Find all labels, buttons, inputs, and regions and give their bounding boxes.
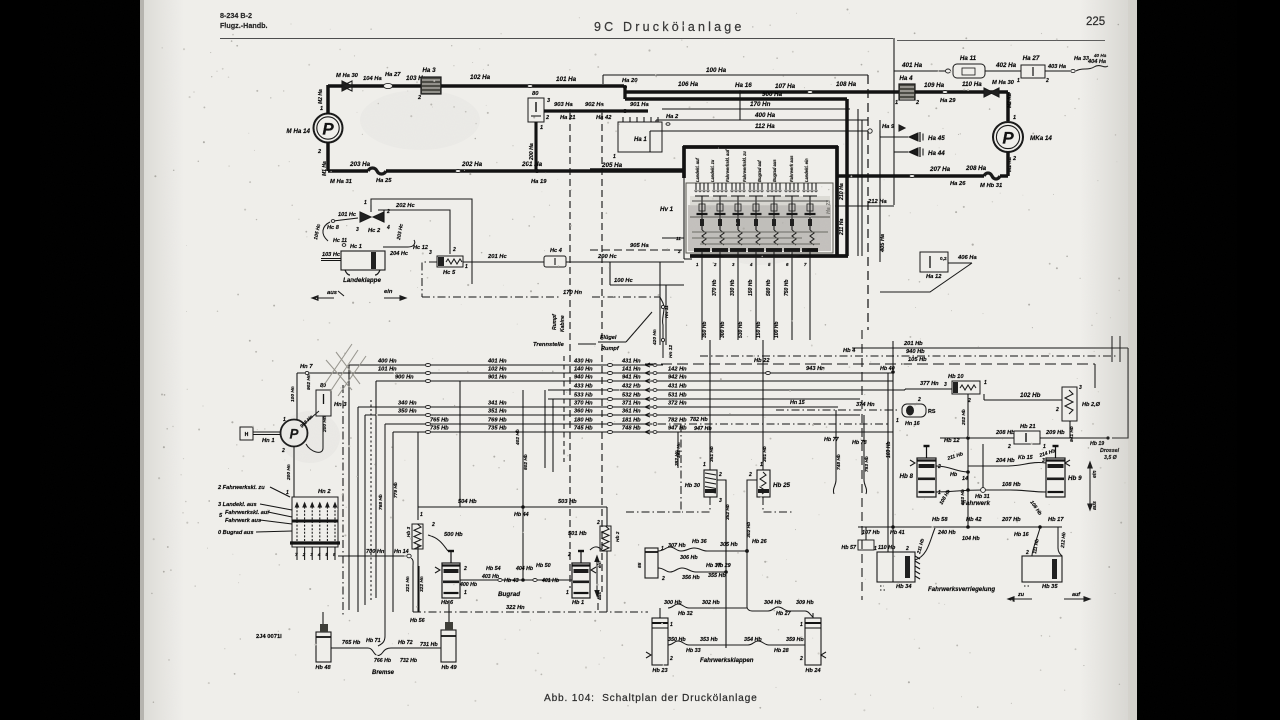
valve Hb 21 — [1014, 431, 1040, 444]
left riser bugrad — [417, 432, 419, 520]
wires below valve block — [701, 262, 703, 340]
wires below Hn 2 — [296, 547, 298, 560]
wire 201 Hc — [463, 261, 544, 263]
bleed valve Ha 45 — [880, 136, 908, 138]
wire 304-309 Hb — [752, 607, 813, 617]
wire 105 Hb dashed — [645, 363, 1095, 365]
wire band y424 — [385, 423, 652, 425]
wire band y424 dash-dot continuation — [658, 423, 890, 425]
scan smudges — [280, 411, 340, 463]
wire pump down — [293, 446, 295, 497]
wires into locks — [915, 528, 935, 560]
riser x726 klappen — [725, 480, 727, 648]
risers from band to bugrad right — [597, 592, 599, 612]
check valve M Ha 30 right — [984, 88, 993, 97]
wire pump MKa14 to return bus — [1006, 152, 1010, 176]
wire 208 Hb — [940, 437, 1014, 439]
paper grain — [140, 0, 1137, 720]
wire band y399 — [548, 398, 860, 400]
wire 170 Hn dash-dot — [422, 262, 437, 297]
wire 940 Hb dash-dot — [700, 355, 1118, 357]
wire right riser 900 Ha — [845, 99, 849, 256]
handpump box H — [240, 427, 253, 440]
valve block Hv 1 body — [688, 205, 831, 251]
wire 202 Hc outer — [371, 199, 472, 284]
wire 170 Hn upper — [662, 108, 850, 110]
valve Hc 2 — [360, 212, 371, 222]
wire 352 Hb — [717, 480, 726, 648]
wire 307-305 Hb — [658, 547, 747, 551]
wire 170 Hn to junction — [660, 297, 664, 358]
riser x523 — [522, 390, 524, 507]
valve 80 upper — [528, 98, 544, 122]
wire 212 Ha — [837, 205, 894, 207]
risers 768/779 Hb to brakes — [378, 424, 385, 646]
dash line trennstelle x564 — [563, 356, 565, 462]
risers to block bottom — [659, 262, 661, 345]
selector block Hn 2 — [292, 497, 338, 547]
cylinder small left — [645, 548, 658, 578]
wire 900 Ha — [625, 97, 847, 101]
wire 200 Hc — [566, 261, 684, 263]
accumulator Hb 25 — [762, 340, 764, 470]
pump MKa 14 — [993, 122, 1023, 152]
throttle Hb 2 bugrad — [600, 526, 611, 551]
throttle Hb 2 — [1062, 387, 1077, 421]
coupling Ha 27 — [384, 83, 393, 88]
wire 109 Ha — [915, 90, 1008, 94]
wire 401 Ha — [894, 70, 950, 72]
throttle valve RS Hn 16 — [902, 404, 926, 417]
riser 340 Hn x358 — [357, 407, 359, 612]
wire band y381 — [376, 380, 893, 382]
wire 377 Hn — [904, 389, 906, 390]
wire band y373 — [297, 372, 893, 374]
valve block internal cross lines — [692, 200, 828, 202]
pump M Ha 14 — [314, 114, 343, 143]
dash risers left — [342, 385, 344, 615]
wire to pump MKa14 pin1 — [1006, 92, 1010, 121]
valve 80 Hn 3 — [304, 411, 319, 424]
wire 765 Hb brake — [331, 647, 368, 649]
dash-dot riser 382 Hn — [680, 424, 682, 510]
arrow ein aus bugrad — [595, 556, 599, 596]
wire 302 Hb riser — [747, 480, 757, 550]
wire 201 Hb — [852, 347, 1128, 349]
wire 209 Hb — [1040, 437, 1108, 439]
double riser x888 x893 — [887, 373, 889, 552]
brake cylinder Hb 48 — [316, 632, 331, 662]
dashed line at Ha 42 — [601, 113, 603, 592]
wire 403 Ha — [1045, 70, 1070, 72]
wire 905 Ha dashed — [590, 249, 684, 251]
wire band y390 — [548, 389, 905, 391]
wire bugrad center 400-404 Hb — [460, 579, 572, 581]
bleed valve Ha 44 — [894, 151, 908, 153]
cylinder Hb 23 — [652, 618, 668, 665]
vertical drop x678 — [677, 432, 679, 468]
wire band y407 — [358, 406, 838, 408]
wire 200 Ha — [534, 122, 537, 170]
wire 204 Hb — [968, 463, 1046, 466]
wire 903-901 Ha — [544, 109, 648, 112]
check valve M Ha 30 — [342, 81, 352, 91]
wire pump top to bus — [326, 85, 330, 114]
risers 433/533 Hb — [544, 390, 546, 468]
filter Ha 3 — [421, 77, 441, 94]
wire 104 Ha top bus — [328, 84, 424, 88]
pump Hn — [281, 420, 308, 447]
valve Hb 10 — [952, 381, 980, 394]
vertical line x894 — [893, 38, 895, 205]
riser 400 Hn x349 — [348, 365, 350, 610]
valve block Hv 1 frame — [683, 145, 838, 149]
valve Ha 12 — [920, 252, 948, 272]
wire band y432 — [393, 431, 893, 433]
dash-dot Hb30 pin3 — [682, 497, 710, 512]
wire 106 Ha bus — [624, 90, 899, 94]
wire 204 Hc — [383, 246, 408, 248]
wire 322 Hn dash-dot bottom — [413, 611, 648, 613]
wire band y365 — [349, 364, 663, 366]
page edge shading — [0, 0, 1, 1]
valve Hc 5 — [437, 256, 463, 267]
lock cylinder Hb 35 — [1022, 556, 1062, 582]
wire 105 Hc curve — [323, 222, 330, 241]
wire 350-359 Hb — [668, 641, 805, 645]
throttle Hb 3 — [412, 524, 423, 549]
header rule — [220, 38, 893, 40]
cylinder Hb 9 — [1046, 458, 1065, 497]
accumulator Hb 30 — [709, 340, 711, 470]
pencil scratches — [322, 344, 366, 396]
valve box Ha 1 — [618, 122, 662, 152]
node Ha 9 — [868, 129, 872, 133]
riser 101 Hn to pump — [296, 373, 298, 420]
riser 900 Hn x376 — [375, 381, 377, 598]
wire 700 Hn — [338, 555, 406, 557]
wire 100 Hc — [609, 262, 611, 285]
wire 356-355 Hb — [658, 568, 726, 572]
wire 102 Ha — [441, 84, 624, 88]
wire 402 Ha — [985, 70, 1021, 72]
cylinder Hb 6 — [442, 563, 460, 598]
risers 321/322 Hn — [411, 558, 413, 566]
wire 112 Ha — [650, 130, 868, 132]
riser x747 klappen — [747, 550, 752, 611]
wire 400 Ha — [656, 119, 868, 121]
trennstelle ticks right — [1111, 336, 1113, 362]
wire 205 Ha into block — [590, 168, 684, 172]
dashed line 405 Ha x868 — [867, 75, 869, 330]
wire band y415 — [365, 414, 860, 416]
wire 102 Hb — [983, 394, 985, 400]
brake cylinder Hb 49 — [441, 630, 456, 662]
dotted feet — [880, 585, 884, 587]
node Hb 40 — [891, 370, 895, 374]
wire 100 Ha — [603, 74, 868, 76]
restrictor Ha 11 — [946, 69, 951, 73]
lock cylinder Hb 34 — [877, 552, 915, 582]
filter Ha 4 — [899, 84, 915, 100]
cylinder Hb 8 — [917, 458, 936, 497]
wire 202 Hb riser — [967, 394, 969, 527]
valve Hc 4 — [544, 256, 566, 267]
scan speckle noise — [465, 111, 467, 113]
riser 350 Hn x365 — [364, 415, 366, 605]
valve Ha 27 right — [1021, 65, 1045, 78]
wire riser x983 — [982, 444, 984, 488]
wire 404 Ha — [1076, 66, 1108, 71]
wire 500 Hb — [428, 535, 448, 551]
wire 211 Hb — [936, 466, 968, 472]
valve block internal valves — [695, 183, 697, 189]
cylinder Hb 1 — [572, 563, 590, 598]
wire 308-302 Hb — [668, 604, 747, 608]
right riser bugrad — [606, 507, 608, 526]
arrows ein aus — [1088, 462, 1092, 510]
wire 374 Hn dash-dot — [776, 409, 898, 411]
wire return bus left 203-201 Ha — [326, 142, 330, 171]
wire 504 Hb frame — [418, 506, 523, 508]
node Ha 19 — [535, 169, 539, 173]
risers Hb 77 78 — [835, 410, 837, 480]
wire 108 Hb — [936, 490, 983, 492]
wire verriegelung main — [858, 526, 1062, 528]
dashed line at Ha 21 — [569, 113, 571, 588]
wire 202 Hc inner — [378, 210, 450, 254]
dash-dot under accumulators — [626, 511, 682, 513]
thin risers x858 x862 — [857, 109, 859, 256]
wire brake risers — [322, 612, 324, 624]
wire 101 Hc — [333, 218, 358, 221]
wire 501 Hb — [590, 547, 603, 551]
dash-dot Hb25 pin3 — [763, 497, 792, 512]
cylinder Hb 24 — [805, 618, 821, 665]
